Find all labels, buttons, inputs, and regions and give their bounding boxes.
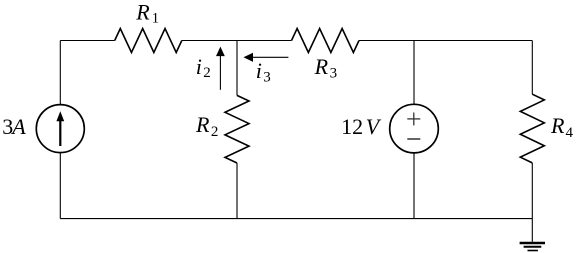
svg-text:R: R: [314, 54, 329, 79]
svg-text:4: 4: [566, 125, 574, 141]
wire R2 branch lower: [236, 163, 238, 219]
svg-text:12: 12: [341, 114, 363, 139]
svg-text:3: 3: [330, 66, 338, 82]
svg-text:V: V: [366, 114, 382, 139]
current arrow i3: [244, 53, 289, 62]
svg-text:A: A: [10, 114, 26, 139]
svg-text:R: R: [195, 112, 210, 137]
resistor R4: [520, 94, 544, 163]
label R1: [135, 0, 159, 27]
resistor R1: [115, 29, 182, 53]
label i2: [196, 54, 211, 81]
ground symbol: [520, 243, 545, 251]
svg-text:1: 1: [152, 11, 160, 27]
svg-text:i: i: [196, 54, 202, 79]
voltage source V1 plus sign: [407, 113, 420, 126]
wire 12V branch upper (node C down): [413, 41, 415, 105]
svg-text:2: 2: [203, 65, 211, 81]
svg-text:2: 2: [211, 124, 219, 140]
svg-text:R: R: [550, 113, 565, 138]
wire left vertical upper: [59, 41, 61, 105]
resistor R3: [292, 29, 360, 53]
wire left vertical lower: [59, 153, 61, 219]
ground stem wire: [531, 219, 533, 242]
label R4: [550, 113, 574, 141]
voltage source V1 minus sign: [407, 138, 420, 140]
wire top-middle (R1 to R3, junction at node B): [182, 40, 292, 42]
label 12V: [341, 114, 382, 139]
resistor R2: [225, 95, 249, 163]
label R2: [195, 112, 218, 140]
svg-text:R: R: [135, 0, 150, 25]
wire top-right (R3 to top-right corner, junction at node C): [359, 40, 532, 42]
wire top-left (from node A to R1): [60, 40, 114, 42]
wire R2 branch upper (node B down): [236, 41, 238, 96]
voltage source V1 circle: [390, 104, 439, 153]
svg-text:i: i: [256, 58, 262, 83]
current source I1 arrow: [56, 111, 64, 146]
wire right vertical upper: [531, 41, 533, 95]
wire 12V branch lower: [413, 153, 415, 219]
svg-text:3: 3: [263, 69, 271, 85]
label i3: [256, 58, 271, 85]
label R3: [314, 54, 338, 82]
label 3A: [2, 114, 26, 139]
wire right vertical lower: [531, 163, 533, 219]
current arrow i2: [216, 47, 225, 90]
wire bottom: [60, 218, 532, 220]
current source I1 circle: [36, 105, 84, 153]
